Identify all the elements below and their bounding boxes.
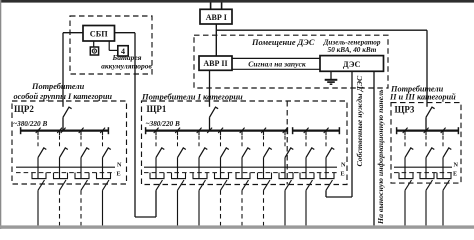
UPS enclosure dashed box [70, 16, 152, 74]
node junction ЩР2 feeder 3 [79, 128, 84, 133]
svg-text:аккумуляторов: аккумуляторов [101, 61, 152, 70]
breaker QF incoming ЩР1 [210, 107, 219, 117]
wire ЩР1 feeder 1 to СБП (U-link) [155, 190, 157, 217]
load tap group ЩР1 feeder 3 [192, 173, 194, 179]
node junction ЩР1 feeder 4 [218, 128, 223, 133]
svg-text:Потребители: Потребители [31, 82, 85, 91]
breaker QF СН feeder 2 [325, 131, 327, 135]
svg-text:II и III категорий: II и III категорий [389, 92, 456, 101]
svg-text:50 кВА, 40 кВт: 50 кВА, 40 кВт [328, 46, 377, 54]
breaker QF ЩР3 feeder 1 [404, 131, 406, 135]
node junction incoming ЩР2 [61, 128, 66, 133]
svg-text:На выносную информационную пан: На выносную информационную панель [376, 89, 385, 225]
breaker QF ЩР1 feeder 3 [198, 131, 200, 135]
svg-text:СБП: СБП [90, 30, 108, 39]
load tap group ЩР3 feeder 3 [436, 173, 438, 179]
node junction ЩР3 feeder 3 [441, 128, 446, 133]
panel ЩР2 dashed box [12, 101, 127, 184]
breaker QF ЩР1 feeder 6 [263, 131, 265, 135]
neutral line N ЩР2 and PE line E [16, 166, 115, 168]
breaker QF ЩР3 feeder 2 [425, 131, 427, 135]
svg-text:~380/220 В: ~380/220 В [146, 120, 180, 128]
load tap group ЩР3 feeder 1 [398, 173, 400, 179]
svg-text:ЩР1: ЩР1 [147, 104, 167, 114]
battery unit pin [108, 41, 110, 50]
room boundary Помещение ДЭС dashed box [194, 35, 388, 88]
load tap group ЩР2 feeder 2 [53, 173, 55, 179]
node junction ЩР2 feeder 1 [36, 128, 41, 133]
breaker QF ЩР1 feeder 7 [284, 131, 286, 135]
breaker area СН busbar [292, 129, 340, 131]
breaker QF ЩР2 feeder 3 [80, 131, 82, 135]
load tap group ЩР1 feeder 7 [278, 173, 280, 179]
svg-text:Собственные нужды ДЭС: Собственные нужды ДЭС [355, 75, 364, 166]
wire ДЭС to remote panel [373, 71, 375, 225]
wire СБП output left [63, 32, 83, 34]
node junction ЩР1 feeder 6 [261, 128, 266, 133]
border frame left [0, 0, 1, 229]
load tap group ЩР1 feeder 1 [149, 173, 151, 179]
load tap group ЩР1 feeder 5 [235, 173, 237, 179]
svg-text:особой группы I категории: особой группы I категории [14, 92, 113, 101]
load tap group ЩР2 feeder 4 [96, 173, 98, 179]
breaker QF ЩР3 feeder 3 [442, 131, 444, 135]
breaker QF ЩР1 feeder 5 [241, 131, 243, 135]
breaker QF incoming ЩР3 [426, 107, 435, 117]
breaker QF ЩР2 feeder 2 [59, 131, 61, 135]
node junction СН feeder 1 [304, 128, 309, 133]
node junction ЩР1 feeder 2 [175, 128, 180, 133]
load tap group ЩР1 feeder 2 [171, 173, 173, 179]
battery unit 4 [118, 46, 128, 56]
breaker QF ЩР2 feeder 1 [37, 131, 39, 135]
neutral line N ЩР1 and PE line E [144, 166, 294, 168]
neutral line N СН and PE line E [294, 166, 337, 168]
panel ЩР3 dashed box [391, 103, 461, 184]
wire mains input 1 [210, 3, 212, 10]
panel ЩР1 dashed box [142, 101, 348, 185]
breaker QF ЩР2 feeder 4 [102, 131, 104, 135]
node junction ЩР3 feeder 2 [424, 128, 429, 133]
svg-text:N: N [117, 162, 122, 169]
border frame bottom [0, 225, 474, 228]
busbar ЩР3 [396, 129, 459, 131]
node junction ЩР2 feeder 2 [57, 128, 62, 133]
breaker QF ЩР1 feeder 1 [155, 131, 157, 135]
node junction ЩР1 feeder 7 [283, 128, 288, 133]
load tap group СН feeder 2 [319, 173, 321, 179]
breaker QF ЩР1 feeder 4 [220, 131, 222, 135]
neutral line N ЩР3 and PE line E [394, 166, 452, 168]
node junction СН feeder 2 [324, 128, 329, 133]
load tap group ЩР1 feeder 4 [214, 173, 216, 179]
svg-text:ЩР2: ЩР2 [14, 104, 34, 114]
ATS unit АВР I [200, 9, 232, 24]
load tap group ЩР2 feeder 1 [31, 173, 33, 179]
load tap group ЩР3 feeder 2 [419, 173, 421, 179]
wire start-signal lower [232, 68, 320, 70]
ATS unit АВР II [199, 56, 232, 70]
indicator unit (lamp) [90, 47, 98, 55]
svg-text:E: E [117, 171, 121, 178]
breaker QF ЩР1 feeder 2 [177, 131, 179, 135]
ground symbol [330, 71, 332, 79]
indicator unit pin [93, 41, 95, 47]
wire АВР I to АВР II [215, 24, 217, 56]
svg-text:E: E [341, 171, 345, 178]
UPS unit СБП [83, 26, 115, 42]
busbar ЩР1 [145, 129, 288, 131]
wire СН feeder 2 to ДЭС (U-link) [325, 190, 327, 197]
load tap group ЩР2 feeder 3 [74, 173, 76, 179]
wire mains input 2 [221, 3, 223, 10]
node junction incoming ЩР1 [207, 128, 212, 133]
svg-text:E: E [453, 171, 457, 178]
load tap group СН feeder 1 [299, 173, 301, 179]
node junction ЩР3 feeder 1 [403, 128, 408, 133]
svg-text:ДЭС: ДЭС [343, 60, 361, 69]
wire start-signal upper [232, 57, 320, 59]
wire СБП input right [115, 32, 136, 34]
svg-text:N: N [454, 162, 459, 169]
svg-text:Помещение ДЭС: Помещение ДЭС [251, 38, 315, 47]
load tap group ЩР1 feeder 6 [257, 173, 259, 179]
svg-text:Потребители I категории: Потребители I категории [141, 91, 243, 101]
svg-text:ЩР3: ЩР3 [395, 105, 415, 115]
svg-text:N: N [341, 162, 346, 169]
node junction ЩР1 feeder 5 [240, 128, 245, 133]
generator unit ДЭС [320, 56, 384, 72]
node junction ЩР1 feeder 1 [154, 128, 159, 133]
node junction ЩР1 feeder 3 [197, 128, 202, 133]
border frame top [0, 0, 474, 3]
svg-text:Сигнал на запуск: Сигнал на запуск [248, 59, 306, 68]
node T-junction to ЩР3 feed [216, 29, 427, 31]
breaker QF СН feeder 1 [305, 131, 307, 135]
svg-text:АВР II: АВР II [203, 59, 227, 68]
node junction ЩР2 feeder 4 [100, 128, 105, 133]
wire АВР II to ЩР1 [209, 70, 211, 107]
svg-text:~380/220 В: ~380/220 В [13, 120, 47, 128]
breaker QF incoming ЩР2 [63, 107, 72, 117]
panel divider ЩР1 / СН ДЭС dashed edge [286, 101, 288, 185]
svg-text:АВР I: АВР I [206, 13, 227, 22]
busbar ЩР2 [20, 129, 109, 131]
wire down to ЩР3 [426, 30, 428, 107]
wire ДЭС to СН panel [351, 71, 353, 197]
